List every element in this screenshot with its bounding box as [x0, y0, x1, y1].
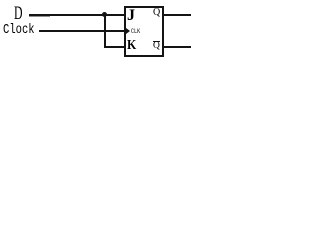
node D label: [14, 3, 23, 25]
pin Q label: [153, 7, 160, 18]
flip-flop U1 box: [124, 6, 164, 57]
node Clock label: [3, 23, 35, 38]
pin Qbar label: [153, 41, 160, 52]
wire to K input: [104, 46, 124, 48]
clock edge triangle: [126, 28, 130, 34]
pin K label: [127, 38, 136, 54]
wire Qbar output: [164, 46, 191, 48]
junction dot on D wire: [102, 12, 107, 17]
wire vertical from junction down: [104, 14, 106, 48]
wire D input to J: [29, 14, 124, 16]
wire Q output: [164, 14, 191, 16]
wire D faint scan shadow: [29, 16, 50, 17]
pin J label: [127, 7, 135, 25]
wire Clock input to CLK: [39, 30, 124, 32]
pin CLK label: [131, 28, 140, 35]
